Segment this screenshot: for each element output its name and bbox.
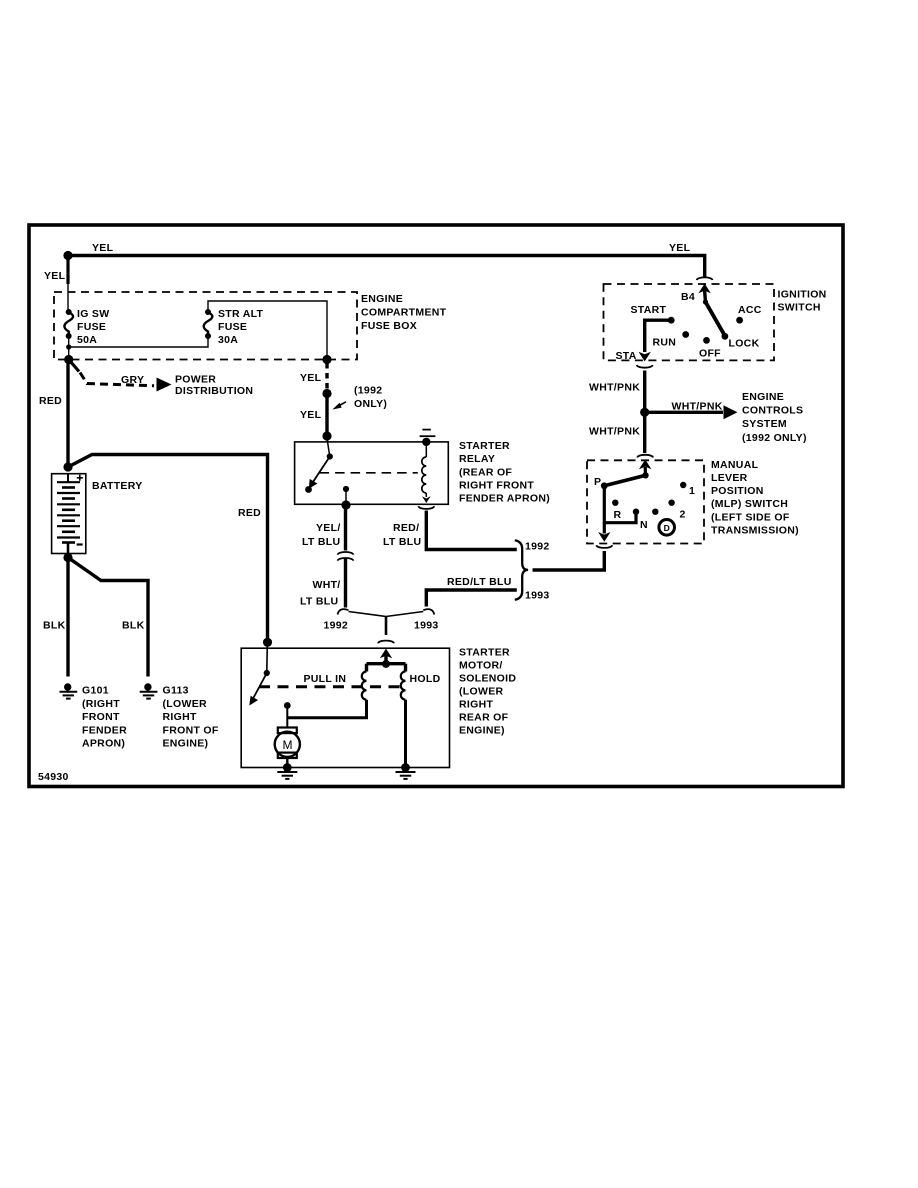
svg-text:POSITION: POSITION [711, 485, 764, 497]
svg-text:N: N [640, 519, 648, 531]
svg-text:D: D [664, 523, 670, 533]
pull-in coil [287, 664, 366, 718]
svg-text:LT BLU: LT BLU [383, 536, 421, 548]
svg-text:START: START [631, 304, 667, 316]
hold coil [401, 664, 406, 766]
svg-text:STR ALT: STR ALT [218, 308, 264, 320]
wire P to output with branch to N [598, 486, 636, 542]
svg-text:RED: RED [39, 395, 62, 407]
wire fuse outputs joined [69, 336, 208, 347]
svg-text:FENDER: FENDER [82, 725, 127, 737]
svg-text:MANUAL: MANUAL [711, 459, 759, 471]
wire YEL/LT BLU from relay output [344, 505, 347, 551]
wire RED/LT BLU 1993 return from brace [426, 590, 517, 607]
junction dot relay output [341, 500, 350, 509]
svg-text:SYSTEM: SYSTEM [742, 418, 787, 430]
fuse STR ALT 30A [204, 308, 264, 346]
contact dot RUN [682, 331, 689, 338]
svg-text:WHT/PNK: WHT/PNK [589, 382, 640, 394]
svg-text:FENDER APRON): FENDER APRON) [459, 493, 550, 505]
relay switch contact and arm [305, 438, 333, 493]
svg-text:IGNITION: IGNITION [778, 289, 827, 301]
wire YEL drop to fuse box [66, 256, 69, 285]
ground (relay case) above coil [420, 430, 436, 446]
svg-text:G101: G101 [82, 685, 109, 697]
engine compartment fuse box (dashed) [54, 292, 357, 360]
contact dot OFF [703, 337, 710, 344]
svg-text:YEL/: YEL/ [316, 522, 341, 534]
junction dot battery negative [63, 553, 72, 562]
svg-text:IG SW: IG SW [77, 308, 109, 320]
svg-text:ENGINE: ENGINE [742, 391, 784, 403]
svg-text:ENGINE: ENGINE [361, 293, 403, 305]
svg-text:YEL: YEL [92, 242, 114, 254]
wire YEL dashed (1992 only) to relay [325, 363, 328, 390]
connector half above starter box [378, 641, 394, 644]
MLP input arrow up [639, 460, 651, 476]
wire RED battery to starter (diagonal + horizontal + vertical) [68, 455, 268, 642]
relay coil [422, 444, 431, 503]
arrowhead to POWER DISTRIBUTION [157, 378, 172, 392]
ground G113 [140, 683, 158, 698]
in-line connector on left wire [338, 552, 354, 555]
splice 1992/1993 merge to starter [338, 609, 435, 635]
contact dot 2 [668, 500, 674, 506]
battery [52, 474, 86, 556]
svg-text:WHT/: WHT/ [313, 579, 341, 591]
connector half above ignition switch [697, 277, 713, 280]
svg-text:(RIGHT: (RIGHT [82, 698, 120, 710]
ground G101 [60, 683, 78, 698]
svg-text:RIGHT FRONT: RIGHT FRONT [459, 480, 534, 492]
svg-text:(MLP) SWITCH: (MLP) SWITCH [711, 498, 788, 510]
contact dot START [668, 317, 675, 324]
svg-text:RIGHT: RIGHT [459, 699, 493, 711]
wire YEL top bus horizontal [68, 254, 706, 277]
solenoid dashed actuator line PULL IN [259, 685, 406, 688]
svg-text:BLK: BLK [122, 620, 145, 632]
svg-text:STARTER: STARTER [459, 440, 510, 452]
svg-text:RUN: RUN [653, 337, 677, 349]
wire WHT/LT BLU [344, 558, 347, 608]
svg-text:WHT/PNK: WHT/PNK [589, 426, 640, 438]
ignition switch arm with arrow to B4 [698, 284, 725, 337]
wire from brace to MLP switch [533, 551, 605, 570]
svg-text:1: 1 [689, 485, 695, 497]
svg-text:1993: 1993 [525, 590, 550, 602]
svg-text:2: 2 [680, 509, 686, 521]
solenoid input arrow up [367, 649, 406, 668]
junction dot starter feed (RED) [263, 638, 272, 647]
starter motor/solenoid box [241, 648, 449, 767]
svg-text:LOCK: LOCK [729, 338, 760, 350]
svg-text:STA: STA [616, 350, 637, 362]
starter relay box [295, 442, 449, 504]
svg-text:54930: 54930 [38, 771, 69, 783]
svg-text:G113: G113 [163, 685, 189, 697]
svg-text:M: M [283, 738, 293, 752]
svg-text:REAR OF: REAR OF [459, 712, 509, 724]
svg-text:COMPARTMENT: COMPARTMENT [361, 307, 447, 319]
starter motor M [275, 702, 300, 766]
wire RED/LT BLU 1992 from relay coil to brace [426, 511, 517, 550]
svg-text:FUSE BOX: FUSE BOX [361, 320, 417, 332]
wire BLK left to G101 [66, 558, 69, 677]
contact dot N [633, 509, 639, 515]
fuse IG SW 50A [64, 308, 109, 346]
svg-text:LEVER: LEVER [711, 472, 748, 484]
connector half above MLP switch [637, 455, 653, 458]
svg-text:RELAY: RELAY [459, 453, 495, 465]
svg-text:RED/: RED/ [393, 522, 419, 534]
svg-text:YEL: YEL [300, 372, 322, 384]
svg-text:GRY: GRY [121, 374, 144, 386]
wire BLK right to G113 [68, 558, 148, 677]
contact dot ACC [736, 317, 743, 324]
svg-text:CONTROLS: CONTROLS [742, 405, 803, 417]
ground below hold coil [396, 763, 416, 779]
svg-text:RIGHT: RIGHT [163, 711, 197, 723]
svg-text:PULL IN: PULL IN [304, 673, 347, 685]
svg-text:LT BLU: LT BLU [302, 536, 340, 548]
svg-text:SWITCH: SWITCH [778, 302, 821, 314]
svg-text:FRONT OF: FRONT OF [163, 725, 219, 737]
svg-text:ACC: ACC [738, 304, 762, 316]
svg-text:TRANSMISSION): TRANSMISSION) [711, 525, 799, 537]
junction dot relay input [322, 431, 331, 440]
svg-text:(LOWER: (LOWER [459, 686, 503, 698]
contact dot 1 [680, 482, 686, 488]
wire WHT/PNK branch to engine controls with arrow [645, 405, 738, 419]
svg-text:DISTRIBUTION: DISTRIBUTION [175, 385, 253, 397]
contact dot R [612, 500, 618, 506]
junction dot on YEL 1992 wire [322, 389, 331, 398]
junction dot top-left YEL [63, 251, 72, 260]
svg-text:1992: 1992 [324, 620, 349, 632]
svg-text:(LEFT SIDE OF: (LEFT SIDE OF [711, 512, 790, 524]
ground below motor [277, 763, 297, 779]
svg-text:YEL: YEL [669, 242, 691, 254]
svg-text:ENGINE): ENGINE) [163, 738, 209, 750]
brace 1992/1993 [515, 540, 528, 600]
ignition switch box (dashed) [604, 284, 775, 360]
svg-text:(REAR OF: (REAR OF [459, 467, 512, 479]
svg-text:50A: 50A [77, 334, 97, 346]
svg-text:ONLY): ONLY) [354, 398, 387, 410]
svg-text:FRONT: FRONT [82, 711, 120, 723]
relay fixed contact to output [343, 486, 349, 492]
junction dot battery positive [63, 462, 72, 471]
wire START output with down arrow [639, 320, 672, 361]
wire STR ALT feed from top bus [208, 301, 327, 358]
contact dot center [652, 509, 658, 515]
svg-text:BATTERY: BATTERY [92, 480, 143, 492]
wire WHT/PNK from ignition [643, 371, 646, 454]
svg-text:(1992 ONLY): (1992 ONLY) [742, 432, 807, 444]
svg-text:RED: RED [238, 507, 261, 519]
wire YEL solid into relay [325, 394, 328, 436]
svg-text:WHT/PNK: WHT/PNK [672, 401, 723, 413]
connector half below ignition switch [637, 365, 653, 368]
svg-text:POWER: POWER [175, 374, 216, 386]
svg-text:R: R [614, 509, 622, 521]
svg-text:P: P [594, 476, 601, 488]
MLP switch box (dashed) [587, 460, 704, 543]
svg-text:(LOWER: (LOWER [163, 698, 207, 710]
connector half below relay [418, 506, 434, 509]
svg-text:1993: 1993 [414, 620, 439, 632]
svg-text:STARTER: STARTER [459, 647, 510, 659]
solenoid switch contact and arm [249, 644, 270, 706]
svg-text:FUSE: FUSE [77, 321, 106, 333]
MLP switch arm to P [601, 472, 649, 489]
svg-text:FUSE: FUSE [218, 321, 247, 333]
svg-text:SOLENOID: SOLENOID [459, 673, 516, 685]
connector half below MLP switch [596, 545, 612, 548]
svg-text:B4: B4 [681, 291, 695, 303]
svg-text:MOTOR/: MOTOR/ [459, 660, 503, 672]
svg-text:1992: 1992 [525, 541, 550, 553]
junction dot WHT/PNK [640, 408, 649, 417]
svg-text:HOLD: HOLD [410, 673, 441, 685]
svg-text:(1992: (1992 [354, 385, 382, 397]
svg-text:OFF: OFF [699, 348, 721, 360]
svg-text:LT BLU: LT BLU [300, 596, 338, 608]
junction dot fuse box bottom right [322, 355, 331, 364]
wire RED from fuse box to battery [66, 360, 69, 468]
svg-text:BLK: BLK [43, 620, 66, 632]
OD circle D [659, 520, 675, 536]
svg-text:YEL: YEL [44, 270, 66, 282]
svg-text:RED/LT BLU: RED/LT BLU [447, 576, 512, 588]
svg-text:ENGINE): ENGINE) [459, 725, 505, 737]
svg-text:YEL: YEL [300, 409, 322, 421]
wire GRY branch to power distribution [70, 361, 79, 372]
junction dot fuse box bottom left [64, 355, 73, 364]
svg-text:30A: 30A [218, 334, 238, 346]
contact dot LOCK [722, 333, 729, 340]
relay internal dashed actuator line [320, 472, 418, 474]
svg-text:APRON): APRON) [82, 738, 125, 750]
